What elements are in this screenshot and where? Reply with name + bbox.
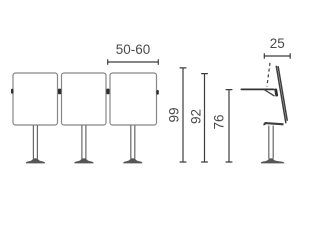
hinge knob between panel 1 and 2 [58, 89, 61, 95]
seat bracket bar (side view) [264, 123, 283, 125]
svg-text:76: 76 [212, 114, 227, 129]
base 3 (front view) [123, 158, 142, 163]
column 3 (front view) [131, 125, 135, 158]
hinge knob left of panel 1 [11, 89, 13, 94]
dashed alternative panel position (side view) [267, 63, 270, 87]
hinge knob right of panel 3 [156, 90, 158, 95]
base 1 (front view) [26, 158, 45, 163]
dimension line 76 (vertical) [226, 90, 233, 162]
svg-text:50-60: 50-60 [116, 42, 151, 57]
dimension line 25 (depth, top right) [264, 53, 290, 58]
tablet arm line (side view) [241, 88, 273, 90]
bracket clamp on panel (side view) [274, 88, 278, 96]
panel 2 (front view, middle) [62, 73, 107, 125]
panel 3 (front view, right) [110, 73, 157, 125]
tablet bracket wedge (side view) [264, 90, 275, 97]
dimension line 99 (vertical) [180, 68, 187, 162]
svg-text:99: 99 [167, 107, 182, 122]
dimension line 50-60 (width, top) [108, 59, 159, 64]
tilted panel slab (side view) [276, 66, 287, 124]
base (side view) [261, 158, 285, 163]
column 2 (front view) [82, 125, 86, 158]
hinge knob between panel 2 and 3 [106, 89, 109, 95]
svg-text:92: 92 [189, 109, 204, 124]
column (side view) [269, 126, 273, 159]
dimension line 92 (vertical) [201, 74, 208, 162]
svg-text:25: 25 [270, 36, 285, 51]
column 1 (front view) [33, 125, 37, 158]
base 2 (front view) [74, 158, 93, 163]
panel 1 (front view, left) [13, 73, 58, 125]
